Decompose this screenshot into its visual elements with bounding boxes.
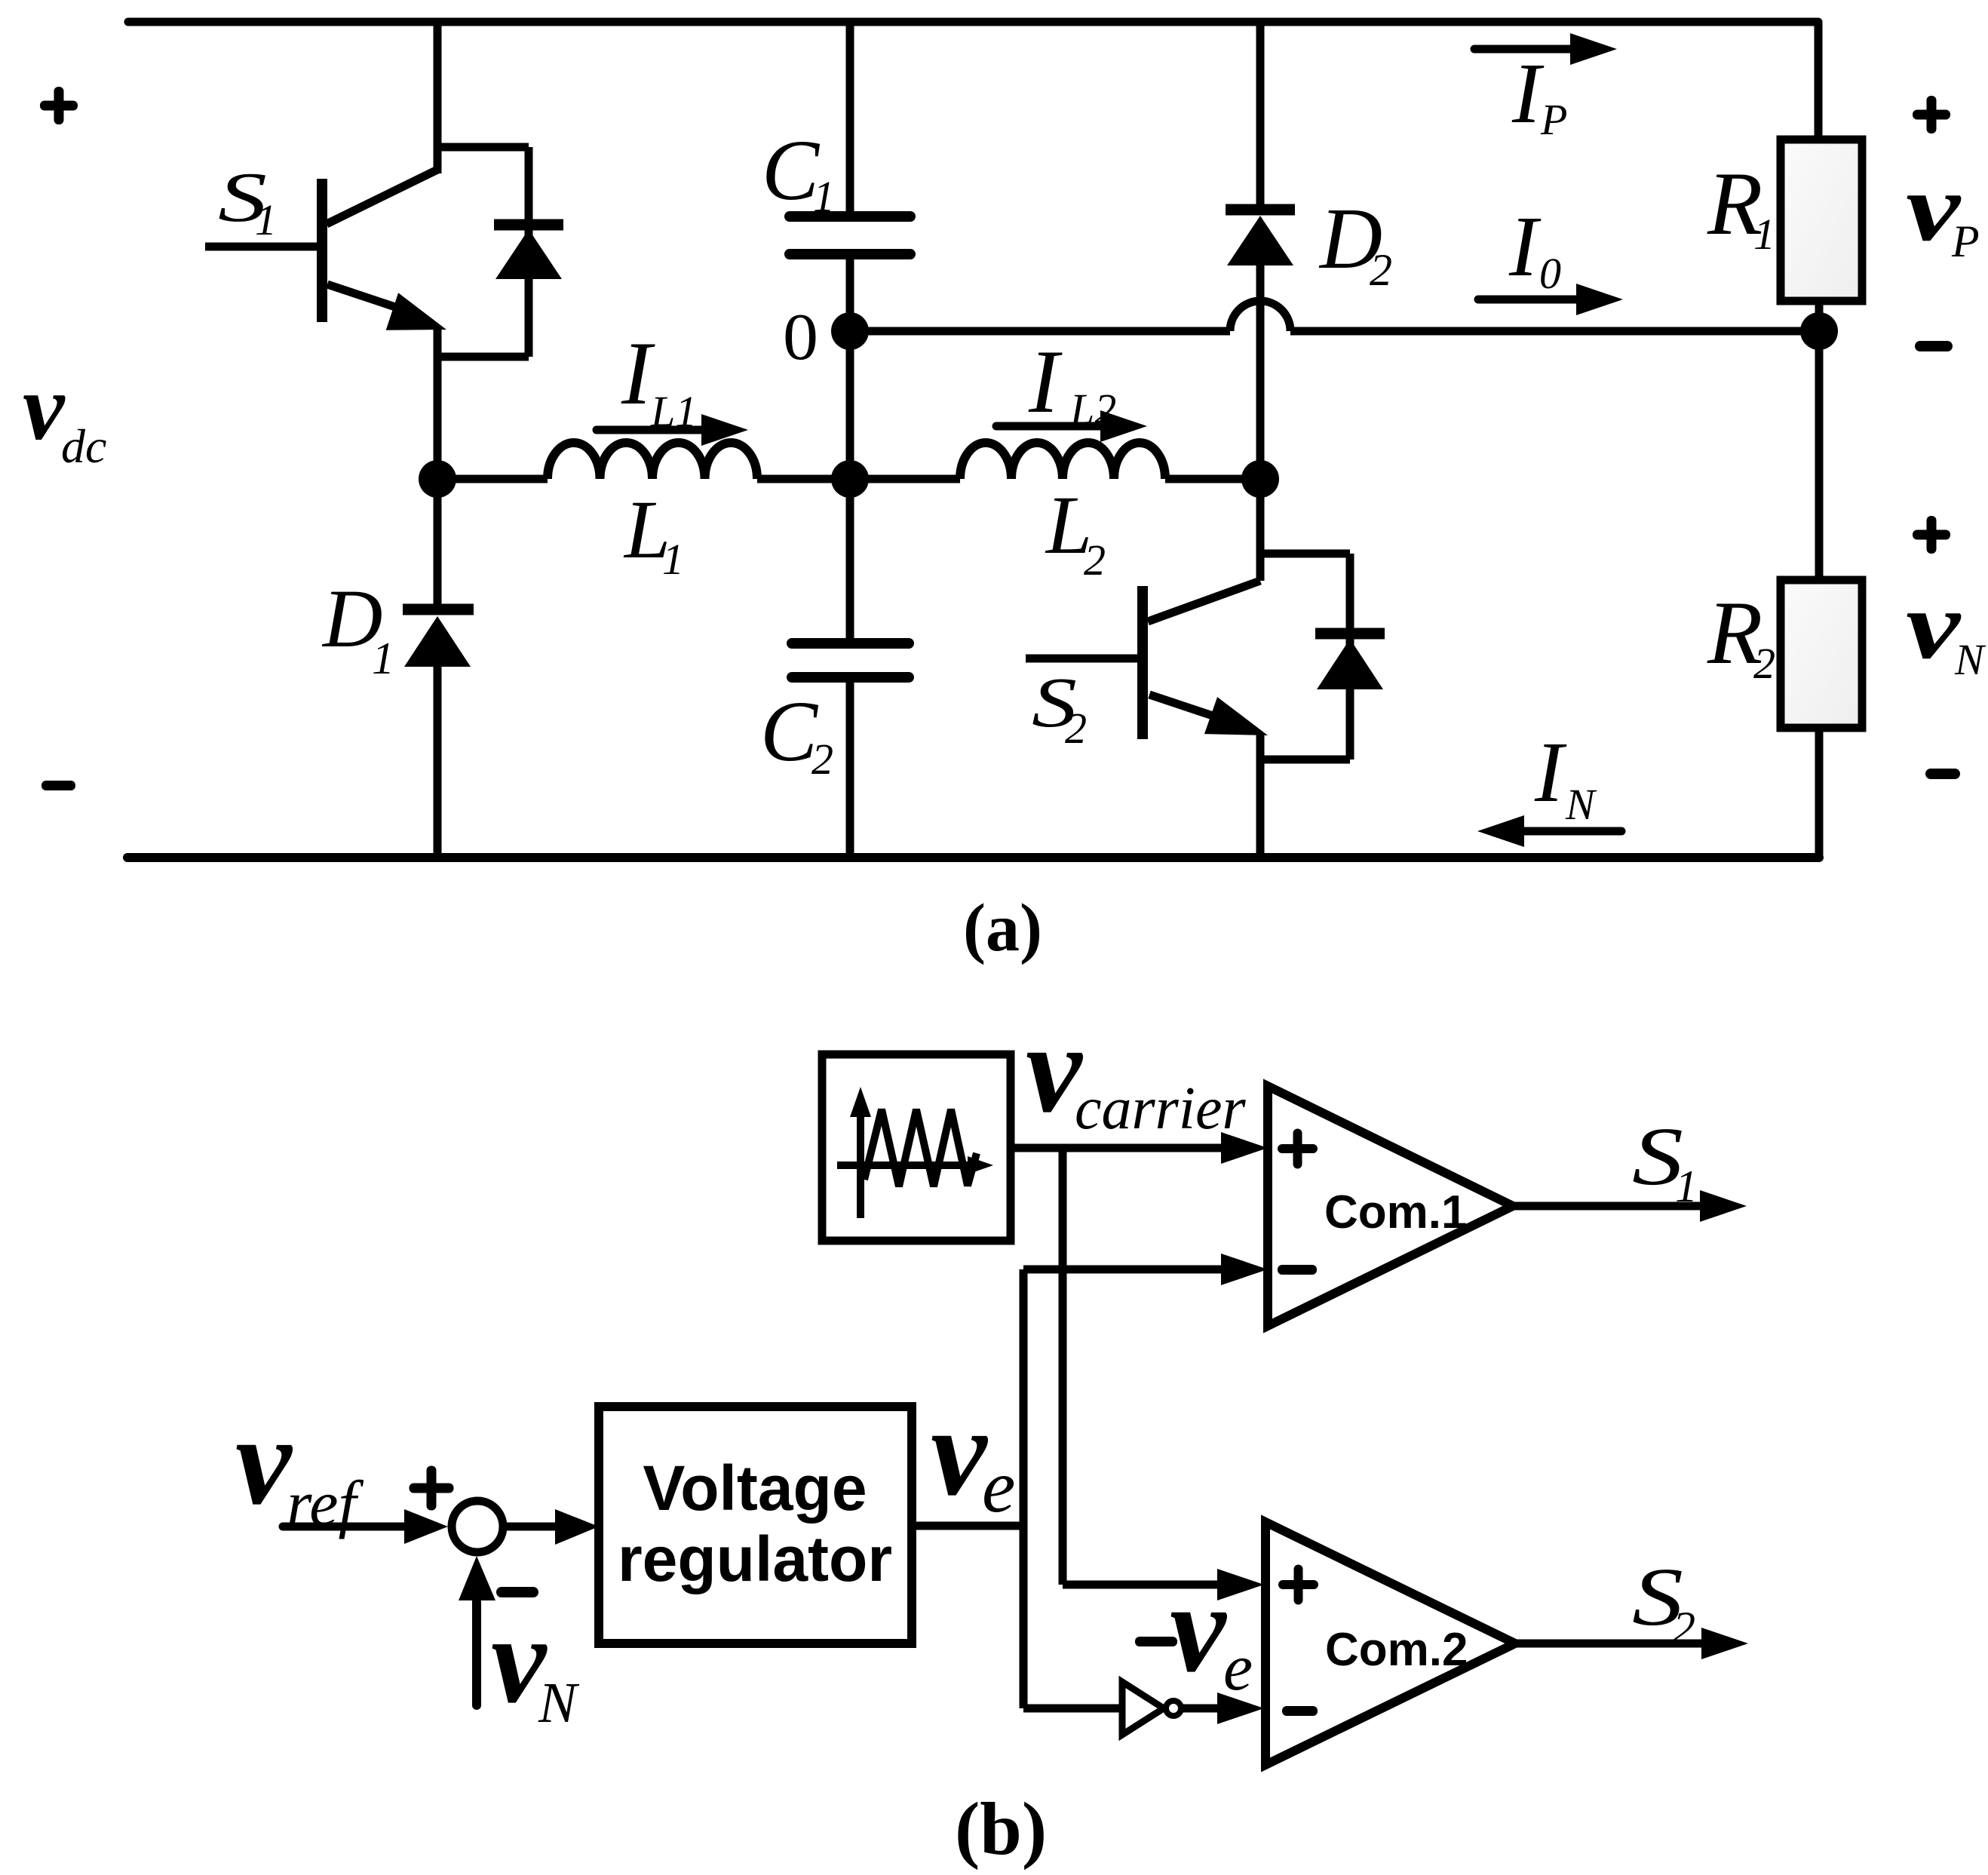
svg-text:C: C: [762, 122, 821, 218]
wire S2 diode bottom bracket: [1260, 756, 1350, 764]
label - (Com.1): [1278, 1265, 1317, 1275]
wire top rail: [128, 18, 1818, 26]
v_ref arrowhead: [404, 1509, 448, 1544]
wire D1 to bottom rail: [434, 667, 442, 858]
svg-text:1: 1: [813, 172, 835, 221]
I_P arrow shaft: [1474, 45, 1580, 54]
D2 triangle: [1227, 216, 1293, 265]
svg-text:v: v: [1170, 1558, 1228, 1699]
wire to Com.2 plus input: [1063, 1581, 1222, 1589]
svg-text:P: P: [1951, 216, 1980, 266]
C1 bottom plate: [790, 249, 910, 259]
C1 top plate: [790, 211, 910, 222]
arrow I_P: [1474, 33, 1617, 65]
S2 gate lead: [1026, 655, 1143, 663]
S2 collector diagonal: [1148, 581, 1260, 621]
S1 gate lead: [205, 243, 322, 251]
svg-text:(b): (b): [955, 1787, 1047, 1870]
arrow S1 output: [1700, 1190, 1747, 1222]
wire L1 to node B: [757, 475, 850, 483]
S2 diode branch wire: [1346, 554, 1354, 760]
wire R2 to bottom rail: [1815, 728, 1824, 858]
S1 emitter diagonal: [327, 284, 411, 312]
I_L2 arrowhead: [1100, 410, 1147, 442]
svg-text:2: 2: [1370, 245, 1392, 295]
wire to Com.1 minus input: [1023, 1266, 1226, 1274]
I_0 arrowhead: [1576, 284, 1623, 315]
svg-text:(a): (a): [963, 891, 1042, 965]
wire 0-line left segment: [850, 327, 1230, 336]
wire inverter to Com.2 minus input: [1181, 1705, 1222, 1713]
wire to inverter: [1023, 1705, 1122, 1713]
svg-text:2: 2: [1065, 704, 1087, 753]
arrow I_L1: [597, 414, 748, 446]
carrier triangle wave: [864, 1109, 977, 1186]
label - (vP negative): [1915, 341, 1953, 351]
carrier y-axis line: [857, 1107, 864, 1218]
S2 diode triangle: [1317, 639, 1383, 689]
S1 collector diagonal: [327, 169, 439, 224]
svg-text:e: e: [982, 1444, 1015, 1528]
arrow v_N feedback: [459, 1556, 495, 1705]
inverter bubble: [1166, 1701, 1181, 1716]
label + (Com.2): [1278, 1565, 1318, 1605]
arrow v_ref input: [283, 1509, 448, 1544]
wire node A to D1: [434, 479, 442, 605]
arrow I_L2: [996, 410, 1147, 442]
svg-text:regulator: regulator: [618, 1524, 892, 1594]
inductor L2: [960, 443, 1165, 479]
D2 cathode bar: [1226, 204, 1295, 216]
wire hop over D2 branch: [1230, 301, 1290, 331]
wire S1 diode bottom bracket: [437, 353, 529, 361]
wire L2 to node C: [1165, 475, 1260, 483]
carrier generator box: [822, 1054, 1011, 1241]
svg-text:1: 1: [372, 634, 394, 683]
capacitor C2: [792, 479, 909, 858]
D1 triangle: [404, 616, 471, 667]
wire carrier output: [1011, 1144, 1226, 1152]
carrier horizontal axis: [837, 1156, 993, 1174]
wire C column between node 0 and node B: [846, 331, 854, 479]
svg-text:Com.1: Com.1: [1324, 1186, 1467, 1238]
S2 gate bar: [1137, 586, 1148, 739]
S2 diode cathode bar: [1315, 628, 1385, 640]
wire node D to R2: [1815, 331, 1824, 580]
wire carrier tee down to Com.2: [1059, 1148, 1067, 1585]
transistor S1 (IGBT): [205, 147, 529, 479]
wire C1 branch from top rail: [846, 22, 854, 213]
svg-text:I: I: [1028, 331, 1063, 431]
summing junction: [452, 1501, 503, 1552]
label + (vdc positive): [40, 87, 78, 124]
wire S2 diode top bracket: [1260, 550, 1350, 558]
S1 diode triangle: [495, 229, 562, 279]
I_N arrowhead: [1477, 815, 1524, 847]
wire node B to C2: [846, 479, 854, 638]
resistor R1: [1781, 140, 1862, 301]
wire 0-line right segment: [1290, 327, 1819, 336]
node C (L2-D2-S2 junction): [1241, 460, 1279, 498]
diode of S2 (anti-parallel): [1315, 554, 1385, 760]
wire node C to S2 collector: [1256, 479, 1265, 581]
label - (vN negative): [1925, 769, 1960, 779]
svg-text:e: e: [1223, 1631, 1253, 1705]
label - (summing): [496, 1587, 538, 1597]
svg-text:2: 2: [1673, 1603, 1695, 1653]
resistor R2: [1781, 580, 1862, 728]
I_N arrow shaft: [1517, 827, 1621, 836]
wire bottom rail: [127, 853, 1819, 862]
I_L1 arrow shaft: [597, 426, 709, 434]
label - (vdc negative): [41, 781, 75, 790]
summing output arrowhead: [555, 1509, 599, 1545]
diode D2: [1226, 210, 1295, 479]
svg-text:I: I: [1534, 724, 1567, 820]
svg-text:1: 1: [255, 195, 277, 244]
svg-text:v: v: [235, 1391, 293, 1531]
C2 top plate: [792, 638, 909, 649]
svg-text:L1: L1: [650, 387, 697, 436]
svg-text:v: v: [931, 1382, 989, 1522]
svg-text:v: v: [1906, 572, 1962, 679]
arrow into Com.1 plus input: [1221, 1132, 1268, 1164]
I_L1 arrowhead: [701, 414, 748, 446]
wire v_e output: [912, 1522, 1023, 1530]
I_0 arrow shaft: [1478, 296, 1584, 304]
comparator Com.1: [1268, 1086, 1513, 1326]
wire C2 to bottom rail: [846, 683, 854, 858]
svg-text:1: 1: [1753, 210, 1775, 259]
carrier vertical axis: [850, 1087, 871, 1218]
svg-text:Voltage: Voltage: [643, 1453, 867, 1524]
svg-text:carrier: carrier: [1075, 1076, 1247, 1142]
svg-text:dc: dc: [61, 419, 106, 473]
node D (output divider): [1800, 312, 1838, 350]
svg-text:2: 2: [1084, 535, 1106, 585]
transistor S1 emitter arrowhead: [386, 293, 446, 330]
diode D1: [403, 479, 474, 858]
arrow S2 output: [1701, 1628, 1748, 1659]
arrow into Com.2 plus input: [1217, 1569, 1264, 1600]
v_N arrow shaft: [472, 1599, 481, 1705]
svg-text:N: N: [538, 1671, 580, 1735]
label + (Com.1): [1278, 1129, 1318, 1169]
wire Com.2 output: [1515, 1640, 1706, 1648]
wire R1 to output node: [1815, 301, 1824, 331]
label + (summing): [410, 1466, 454, 1511]
node B (C-L junction): [831, 460, 869, 498]
wire right-top vertical to R1: [1815, 22, 1823, 143]
S1 diode branch wire: [525, 147, 533, 357]
wire D2 to node C: [1256, 265, 1265, 479]
wire S1 diode top bracket: [437, 143, 529, 152]
svg-text:I: I: [1508, 198, 1542, 294]
svg-text:1: 1: [1675, 1162, 1698, 1211]
svg-text:v: v: [23, 356, 66, 460]
svg-text:N: N: [1954, 635, 1986, 684]
summing output shaft: [502, 1523, 560, 1531]
svg-text:N: N: [1565, 780, 1597, 829]
C2 bottom plate: [792, 672, 909, 683]
wire S1 branch from top rail: [434, 22, 442, 173]
svg-text:2: 2: [1753, 639, 1775, 688]
label - (Com.2): [1282, 1706, 1318, 1716]
carrier y-axis arrowhead: [850, 1087, 871, 1117]
label + (vP): [1913, 96, 1950, 133]
transistor S2 (IGBT): [1026, 479, 1350, 858]
capacitor C1: [790, 216, 910, 331]
arrow into Com.1 minus input: [1221, 1254, 1268, 1285]
wire Com.1 output: [1513, 1202, 1704, 1211]
v_ref arrow shaft: [283, 1523, 411, 1531]
svg-text:1: 1: [662, 535, 684, 584]
svg-text:Com.2: Com.2: [1325, 1624, 1468, 1676]
S1 gate bar: [317, 179, 327, 322]
I_L2 arrow shaft: [996, 422, 1109, 431]
svg-text:L2: L2: [1069, 385, 1116, 434]
v_N arrowhead: [459, 1556, 495, 1600]
I_P arrowhead: [1570, 33, 1617, 65]
node 0: [831, 312, 869, 350]
transistor S2 emitter arrowhead: [1204, 697, 1268, 735]
wire D2 branch from top rail: [1256, 22, 1265, 207]
label -v_e: [1135, 1637, 1177, 1646]
wire ve branch vertical: [1020, 1269, 1028, 1708]
node A (S1-D1-L1 junction): [419, 460, 456, 498]
wire S2 emitter to bottom rail: [1256, 733, 1265, 858]
D1 cathode bar: [403, 604, 474, 615]
inductor L1: [548, 443, 757, 479]
wire node A to L1: [437, 475, 548, 483]
svg-text:P: P: [1540, 95, 1567, 144]
carrier x-axis line: [837, 1162, 973, 1169]
svg-text:0: 0: [783, 301, 818, 374]
svg-text:C: C: [760, 683, 819, 779]
arrow summing to regulator: [502, 1509, 599, 1545]
svg-text:2: 2: [811, 735, 833, 784]
arrow I_N: [1477, 815, 1621, 847]
carrier x-axis arrowhead: [968, 1156, 993, 1174]
wire node B to L2: [850, 475, 960, 483]
arrow I_0: [1478, 284, 1623, 315]
svg-text:0: 0: [1539, 249, 1561, 298]
arrow into Com.2 minus input: [1217, 1692, 1264, 1724]
wire C1 to node 0: [846, 259, 854, 331]
wire S1 emitter to node A: [434, 327, 442, 479]
comparator Com.2: [1266, 1522, 1515, 1765]
svg-text:I: I: [1511, 45, 1545, 141]
diode of S1 (anti-parallel): [494, 147, 563, 357]
label + (vN): [1913, 516, 1950, 554]
S1 diode cathode bar: [494, 219, 563, 231]
inverter (NOT gate): [1122, 1682, 1164, 1735]
S2 emitter diagonal: [1149, 695, 1233, 723]
voltage regulator box: [599, 1407, 912, 1643]
